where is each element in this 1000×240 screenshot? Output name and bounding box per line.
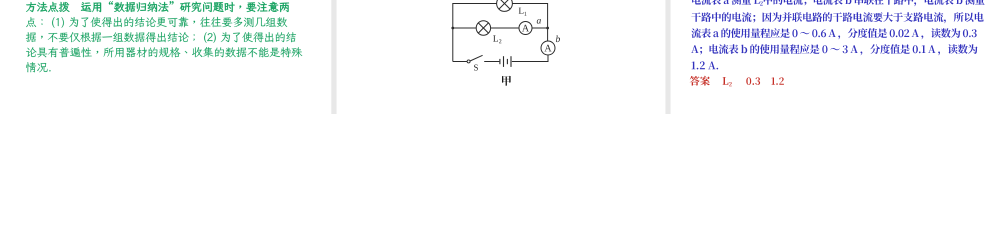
wire bottom right segment — [512, 61, 548, 63]
right panel text line 3 — [691, 28, 976, 39]
left panel text line 3 — [26, 32, 296, 43]
label S — [474, 65, 478, 71]
ammeter a (A1) — [519, 22, 532, 35]
left panel text line 1 — [26, 1, 289, 12]
node b label — [556, 35, 560, 42]
wire bottom left — [453, 61, 467, 63]
left panel text line 4 — [26, 47, 302, 58]
ammeter b (A2) — [541, 41, 555, 55]
right panel text line 5 — [692, 61, 719, 69]
right panel text line 1 — [692, 0, 985, 6]
wire left vertical — [452, 3, 454, 62]
left panel text line 2 — [26, 17, 287, 28]
right panel answer line — [690, 76, 784, 86]
label L2 — [493, 35, 501, 43]
wire right vertical upper — [547, 3, 549, 41]
label L1 — [519, 8, 527, 16]
lamp L1 — [497, 0, 513, 11]
panel separator 1 — [331, 0, 336, 114]
switch pivot — [467, 60, 470, 63]
wire top — [453, 3, 548, 5]
label jia (甲) — [502, 76, 511, 86]
junction dot left — [451, 27, 454, 30]
node a label — [537, 19, 541, 24]
right panel text line 4 — [691, 44, 977, 55]
switch blade — [470, 55, 483, 61]
left panel text line 5 — [26, 62, 51, 72]
wire right vertical lower — [547, 55, 549, 62]
lamp L2 — [476, 21, 490, 35]
right panel text line 2 — [691, 12, 983, 23]
junction dot right — [546, 27, 549, 30]
panel separator 2 — [665, 0, 670, 114]
wire battery to switch — [484, 61, 499, 63]
battery cells — [499, 59, 501, 64]
wire middle branch — [453, 27, 476, 29]
